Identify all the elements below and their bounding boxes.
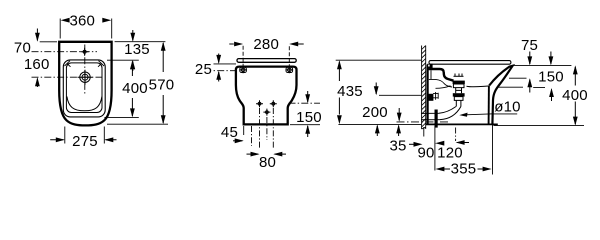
svg-text:280: 280 (253, 36, 279, 53)
dim 275 (50, 127, 116, 151)
bidet outer outline plan (59, 42, 111, 126)
dim 70 (14, 29, 57, 57)
svg-text:ø10: ø10 (494, 98, 520, 115)
dim 90 (409, 141, 444, 162)
svg-text:400: 400 (562, 87, 588, 104)
wall hatch (422, 46, 426, 130)
svg-text:355: 355 (451, 161, 477, 178)
bolt line side (379, 94, 421, 96)
dim 355 (435, 115, 492, 178)
hole extension dashed left (242, 46, 244, 67)
svg-text:360: 360 (69, 13, 95, 30)
fixture back edge (427, 65, 429, 125)
tap centerline below floor (455, 128, 457, 142)
dim 135 (107, 30, 165, 71)
bowl inner surface thin (429, 79, 452, 87)
hole extension dashed right (288, 46, 290, 66)
back inner thin (430, 70, 432, 79)
svg-text:45: 45 (221, 124, 238, 141)
rim slab front (237, 59, 296, 63)
svg-text:400: 400 (122, 80, 148, 97)
dim 45 (221, 124, 244, 143)
hole centerline front (289, 102, 321, 104)
dim 570 (107, 42, 174, 125)
rim tip wedge (489, 66, 512, 125)
dim 25 (195, 54, 237, 82)
drain centerline below floor (434, 126, 436, 171)
floor extension left (338, 123, 421, 125)
drain centerline horizontal (32, 76, 104, 78)
rim outer plan (63, 60, 105, 117)
dim 120 (437, 140, 469, 162)
dim 280 (229, 36, 303, 53)
dim 35 arrows (389, 108, 406, 155)
plan vertical centerline (84, 45, 86, 96)
svg-text:75: 75 (521, 37, 538, 54)
sub-floor centerlines crosses (259, 108, 261, 150)
tap hole cross (81, 48, 89, 56)
dim 150 side (538, 52, 564, 102)
dim 435 (336, 60, 421, 124)
label dia10 (459, 98, 520, 117)
dim 75 bottom arrow (527, 78, 532, 92)
rim corner chamfer marks (65, 61, 105, 67)
fixing bolt on wall (428, 92, 439, 101)
svg-text:435: 435 (337, 83, 363, 100)
dim 80 (247, 152, 287, 171)
svg-text:160: 160 (24, 56, 50, 73)
svg-text:25: 25 (195, 61, 212, 78)
svg-text:135: 135 (124, 41, 150, 58)
sub-floor extension pedestal left (243, 126, 245, 135)
svg-text:275: 275 (72, 133, 98, 150)
sub-floor centerline 45 (251, 126, 253, 146)
bowl profile thick (429, 69, 454, 81)
svg-text:35: 35 (389, 138, 406, 155)
floor line under fixture (426, 123, 498, 125)
pipe centerline through wall (397, 121, 449, 123)
dim 360 (60, 13, 111, 39)
tap hole centerline horizontal (32, 51, 98, 53)
rim slab side (429, 61, 511, 65)
dim 400 side (562, 65, 588, 125)
level line L2 (497, 86, 546, 88)
svg-text:120: 120 (437, 145, 463, 162)
dim 160 (24, 56, 50, 87)
svg-text:80: 80 (259, 154, 276, 171)
fixing hole left front (240, 67, 247, 74)
svg-text:70: 70 (14, 39, 31, 56)
svg-text:150: 150 (538, 69, 564, 86)
trap pipe curves (436, 86, 451, 89)
tap level line L1 (509, 77, 527, 79)
fixing hole right front (286, 67, 293, 74)
rim inner plan (66, 63, 102, 113)
mounting hook (427, 64, 432, 69)
dim 200 (362, 83, 388, 137)
drain symbol (78, 70, 93, 85)
waste pipe down (435, 110, 438, 128)
dim 75 (521, 37, 538, 65)
drain stack valve (453, 74, 465, 107)
svg-text:90: 90 (417, 144, 434, 161)
front leg left edge (488, 86, 490, 125)
bowl curve (67, 97, 102, 111)
dim 150 front (290, 91, 322, 137)
svg-text:570: 570 (149, 76, 175, 93)
svg-text:200: 200 (362, 104, 388, 121)
body outline front (236, 67, 297, 125)
wall edge extension below floor (423, 127, 425, 137)
bowl bottom thin curve (467, 85, 490, 88)
rim top extension right (line A) (513, 64, 571, 66)
dim 400 plan (104, 60, 147, 117)
svg-text:150: 150 (296, 109, 322, 126)
floor extension right (494, 125, 585, 127)
drain crosses front (256, 100, 277, 115)
